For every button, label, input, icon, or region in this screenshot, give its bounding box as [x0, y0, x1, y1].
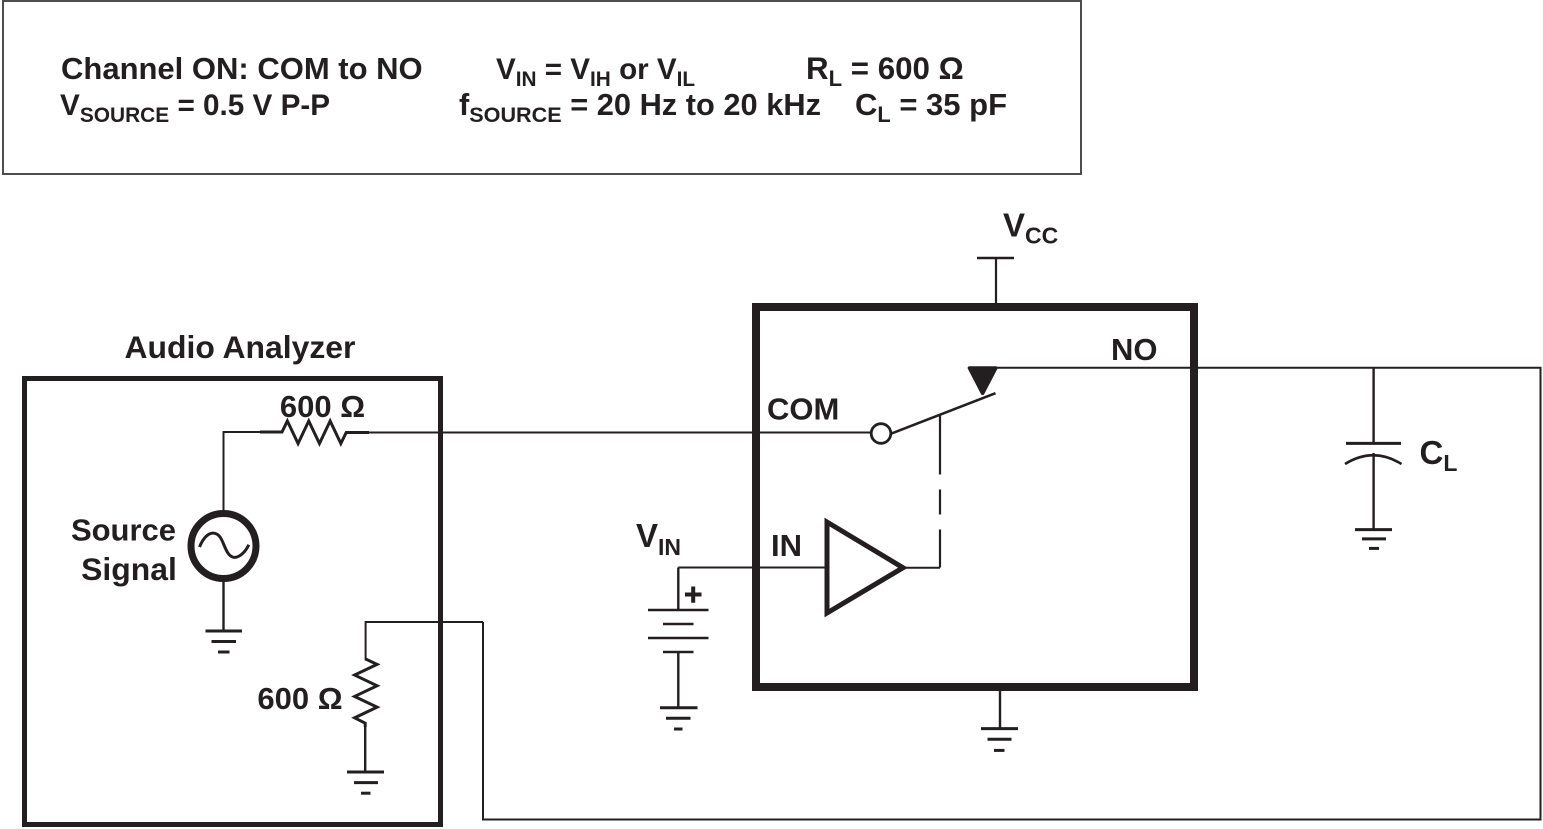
pin label NO — [1111, 332, 1158, 367]
svg-text:RL = 600 Ω: RL = 600 Ω — [806, 51, 964, 91]
ground under capacitor CL — [1355, 530, 1392, 549]
battery V1 plates — [648, 610, 709, 652]
switch pole circle (COM contact) — [871, 424, 891, 444]
svg-text:NO: NO — [1111, 332, 1158, 367]
svg-text:fSOURCE = 20 Hz to 20 kHz: fSOURCE = 20 Hz to 20 kHz — [459, 87, 821, 127]
condition label: VIN = VIH or VIL — [496, 53, 695, 91]
condition label: CL = 35 pF — [855, 87, 1007, 127]
condition label: RL = 600 ohm — [806, 51, 964, 91]
svg-text:VCC: VCC — [1003, 207, 1058, 249]
resistor R1 600 ohm horizontal — [260, 421, 369, 444]
Audio Analyzer box — [25, 379, 441, 825]
svg-text:IN: IN — [771, 528, 802, 563]
switch throw contact (filled triangle) — [970, 368, 996, 393]
wire NO net loop: node to bottom rail to right rail to NO pin — [483, 368, 1541, 820]
value label 600 ohm (R2) — [257, 681, 342, 716]
ground under IC box — [981, 729, 1018, 751]
condition label: fSOURCE = 20 Hz to 20 kHz — [459, 87, 821, 127]
svg-text:VIN = VIH or VIL: VIN = VIH or VIL — [496, 53, 695, 91]
wire IC box to ground — [999, 691, 1001, 729]
wire battery V1 to ground — [677, 652, 679, 708]
value label 600 ohm (R1) — [280, 389, 365, 424]
wire resistor R2 top to node — [366, 622, 483, 661]
ground under resistor R2 — [347, 772, 384, 793]
buffer driver U1A (triangle) — [827, 522, 903, 613]
wire capacitor CL to ground — [1372, 453, 1374, 530]
wire COM net: resistor R1 to switch circle — [369, 432, 871, 434]
wire VIN to buffer input — [678, 567, 828, 569]
ground under source — [206, 579, 243, 653]
svg-text:Audio Analyzer: Audio Analyzer — [125, 329, 356, 365]
AC source Source Signal — [191, 514, 256, 579]
wire source top to resistor R1 — [224, 432, 263, 511]
dashed control line from buffer to switch — [939, 416, 941, 568]
switch IC box U1 — [756, 307, 1194, 687]
wire tap to capacitor CL — [1372, 368, 1374, 444]
resistor R2 600 ohm vertical — [355, 659, 378, 727]
svg-text:600 Ω: 600 Ω — [257, 681, 342, 716]
svg-text:Signal: Signal — [81, 551, 177, 587]
condition label: VSOURCE = 0.5 V P-P — [60, 89, 330, 127]
power VCC label — [1003, 207, 1058, 249]
wire VIN node down to battery V1 — [677, 568, 679, 611]
label VIN — [636, 517, 681, 560]
wire buffer output to dashed control — [903, 567, 940, 569]
svg-text:CL: CL — [1420, 434, 1458, 476]
power VCC bar symbol — [977, 258, 1014, 305]
pin label COM — [767, 392, 839, 427]
label Source Signal — [71, 513, 177, 588]
svg-text:600 Ω: 600 Ω — [280, 389, 365, 424]
capacitor CL — [1345, 443, 1402, 464]
svg-text:VSOURCE = 0.5 V P-P: VSOURCE = 0.5 V P-P — [60, 89, 330, 127]
label Audio Analyzer — [125, 329, 356, 365]
svg-text:Source: Source — [71, 513, 176, 548]
pin label IN — [771, 528, 802, 563]
svg-text:COM: COM — [767, 392, 839, 427]
conditions box — [3, 1, 1081, 174]
svg-text:CL = 35 pF: CL = 35 pF — [855, 87, 1007, 127]
condition label: Channel ON: COM to NO — [61, 51, 423, 86]
ground under battery V1 — [660, 708, 698, 729]
svg-text:Channel ON: COM to NO: Channel ON: COM to NO — [61, 51, 423, 86]
svg-text:VIN: VIN — [636, 517, 681, 560]
wire resistor R2 bottom to ground — [364, 725, 366, 772]
battery V1 plus sign — [685, 587, 702, 603]
switch lever — [891, 393, 996, 434]
label CL — [1420, 434, 1458, 476]
